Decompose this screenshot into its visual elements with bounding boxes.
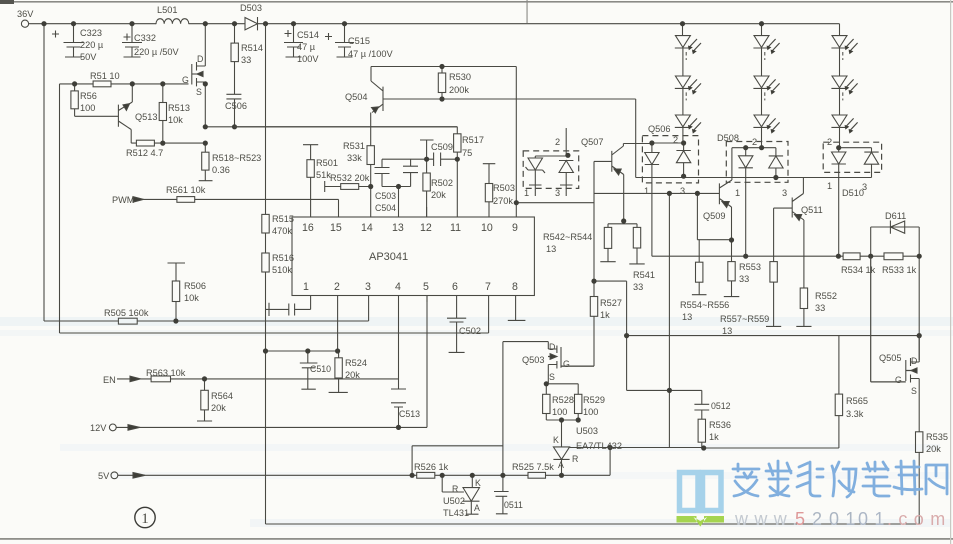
capacitor C510	[300, 351, 318, 389]
page frame right	[950, 0, 951, 544]
svg-text:470k: 470k	[272, 226, 292, 236]
svg-text:36V: 36V	[17, 9, 34, 19]
svg-text:5: 5	[423, 281, 429, 293]
LED string1 diode 1	[675, 24, 691, 76]
inductor L501	[156, 19, 189, 24]
svg-text:C514: C514	[297, 30, 319, 40]
svg-text:C510: C510	[310, 364, 331, 374]
svg-text:Q509: Q509	[703, 211, 725, 221]
resistor R527	[590, 297, 597, 317]
pin numbers U501 top row	[302, 222, 518, 234]
svg-text:R564: R564	[211, 391, 233, 401]
svg-text:C323: C323	[80, 28, 102, 38]
svg-text:33: 33	[739, 274, 749, 284]
wire R512 line	[131, 142, 205, 144]
capacitor C512	[694, 404, 709, 419]
svg-text:3: 3	[555, 188, 560, 198]
dual diode package D508 dashed box	[726, 142, 788, 183]
resistor R528	[545, 384, 547, 420]
transistor Q513	[118, 84, 132, 143]
transistor Q505 MOSFET	[906, 336, 919, 432]
zener diode left in box1	[526, 156, 546, 196]
svg-text:100: 100	[552, 407, 567, 417]
svg-text:Q513: Q513	[135, 112, 157, 122]
node 5V terminal	[111, 472, 118, 479]
svg-text:12V: 12V	[90, 423, 107, 433]
LED string2 diode 2	[753, 76, 769, 115]
wire pin2 vertical and line y351	[266, 296, 338, 352]
svg-text:4: 4	[395, 281, 401, 293]
svg-text:R529: R529	[583, 395, 605, 405]
svg-text:C503: C503	[375, 191, 396, 201]
svg-text:200k: 200k	[449, 85, 469, 95]
svg-text:1: 1	[827, 181, 832, 191]
node circled 1 page marker	[135, 507, 155, 527]
svg-text:R514: R514	[241, 43, 263, 53]
svg-text:AP3041: AP3041	[369, 251, 408, 263]
svg-text:2: 2	[812, 509, 828, 529]
wire 5V line	[118, 474, 610, 476]
wire Q506 pin1 vertical down	[668, 193, 670, 448]
svg-text:R513: R513	[168, 103, 190, 113]
transistor Q504	[371, 67, 383, 146]
wire bus B	[60, 296, 489, 334]
dual diode package Q506 dashed box	[642, 136, 698, 183]
resistor R56	[75, 84, 119, 116]
svg-text:R526 1k: R526 1k	[414, 462, 449, 472]
svg-text:1: 1	[141, 511, 149, 527]
svg-text:220 µ /50V: 220 µ /50V	[134, 47, 179, 57]
svg-text:11: 11	[450, 222, 461, 234]
svg-text:Q503: Q503	[522, 355, 544, 365]
wire PWM line	[133, 199, 339, 217]
svg-text:0511: 0511	[504, 500, 523, 510]
svg-text:2: 2	[827, 137, 832, 147]
faint scan tint bands	[0, 317, 953, 326]
svg-text:D510: D510	[842, 188, 864, 198]
svg-text:20k: 20k	[431, 190, 446, 200]
resistor R502	[426, 159, 428, 217]
svg-text:9: 9	[512, 222, 518, 234]
svg-text:Q504: Q504	[345, 92, 367, 102]
svg-text:50V: 50V	[80, 52, 97, 62]
svg-text:R553: R553	[739, 262, 761, 272]
svg-text:U502: U502	[443, 496, 465, 506]
svg-text:G: G	[563, 359, 570, 369]
wire pin9 grand vertical	[515, 67, 517, 218]
capacitor C323	[52, 24, 84, 57]
svg-text:3.3k: 3.3k	[846, 409, 864, 419]
resistor R563	[151, 376, 170, 382]
svg-text:L501: L501	[157, 5, 177, 15]
capacitor C332	[122, 24, 142, 57]
junction dots input rail area	[41, 21, 347, 146]
svg-text:www.: www.	[734, 509, 804, 529]
wire Q504 base line y99 to right	[383, 98, 636, 100]
svg-text:1: 1	[524, 188, 529, 198]
junction dots oscillator network	[368, 64, 519, 205]
svg-text:R542~R544: R542~R544	[543, 232, 592, 242]
svg-text:14: 14	[361, 222, 373, 234]
svg-text:R516: R516	[272, 253, 294, 263]
watermark logo book icon	[680, 473, 722, 511]
junction dots EN and lower-left buses	[173, 318, 401, 430]
IC U501 AP3041	[292, 217, 534, 296]
svg-text:R525 7.5k: R525 7.5k	[512, 462, 554, 472]
svg-text:R563 10k: R563 10k	[146, 368, 186, 378]
dual diode package box (left of Q507) dashed	[523, 151, 579, 189]
svg-text:33k: 33k	[347, 153, 362, 163]
resistor R503	[483, 164, 496, 217]
svg-text:20k: 20k	[211, 403, 226, 413]
diode left in Q506	[645, 143, 684, 256]
svg-text:A: A	[558, 460, 564, 470]
wire bottom rail	[266, 523, 920, 525]
scan crease line top middle	[527, 0, 528, 23]
svg-text:C506: C506	[225, 101, 247, 111]
resistor R530	[441, 67, 443, 100]
svg-text:EA7/TL432: EA7/TL432	[576, 441, 622, 451]
diode right in Q506	[676, 143, 690, 176]
page frame bottom	[0, 538, 953, 540]
resistor R517	[456, 152, 458, 217]
svg-text:R: R	[452, 484, 458, 494]
svg-text:100V: 100V	[297, 54, 319, 64]
svg-text:U503: U503	[576, 426, 598, 436]
svg-text:D: D	[197, 54, 203, 64]
svg-text:C504: C504	[375, 203, 396, 213]
svg-text:S: S	[196, 87, 202, 97]
svg-text:6: 6	[452, 281, 458, 293]
svg-text:G: G	[182, 75, 189, 85]
svg-text:R524: R524	[345, 358, 367, 368]
svg-text:R541: R541	[633, 270, 655, 280]
wire EN line	[117, 378, 399, 380]
wire Q503 drain vertical down to 5V line	[502, 342, 504, 492]
capacitor C515	[325, 24, 354, 57]
svg-text:.com: .com	[887, 509, 952, 529]
transistor Q501 power MOSFET	[192, 24, 206, 127]
svg-text:47 µ /100V: 47 µ /100V	[348, 49, 393, 59]
svg-text:R515: R515	[272, 214, 294, 224]
wire pin1 cap branch	[266, 296, 311, 317]
wire R503 tap to Q507 base line	[516, 202, 594, 204]
diode D611	[871, 221, 920, 257]
wire left vertical 2 to bus B	[59, 84, 61, 333]
resistor R501	[303, 145, 318, 217]
svg-text:20k: 20k	[926, 444, 941, 454]
svg-text:C332: C332	[134, 33, 156, 43]
svg-text:15: 15	[330, 222, 342, 234]
svg-text:S: S	[911, 386, 917, 396]
svg-text:D: D	[911, 356, 917, 366]
wire Q507 base line y193.4	[594, 192, 719, 194]
resistor R532	[325, 181, 371, 192]
svg-text:R506: R506	[184, 281, 206, 291]
svg-text:10k: 10k	[168, 115, 183, 125]
resistor R557~R559	[770, 262, 777, 283]
svg-text:1k: 1k	[709, 432, 719, 442]
svg-text:0.36: 0.36	[212, 165, 230, 175]
resistor R51	[93, 81, 111, 87]
diode right in D510	[864, 148, 878, 178]
svg-text:3: 3	[782, 188, 787, 198]
svg-text:R51 10: R51 10	[90, 71, 120, 81]
node 36V input terminal	[21, 20, 28, 27]
svg-text:R565: R565	[846, 396, 868, 406]
svg-text:R536: R536	[709, 420, 731, 430]
svg-text:Q506: Q506	[648, 124, 670, 134]
svg-text:220 µ: 220 µ	[80, 40, 104, 50]
svg-text:D: D	[549, 342, 555, 352]
svg-text:A: A	[474, 503, 480, 513]
LED string1 diode 2	[675, 76, 691, 115]
LED string3 diode 1	[831, 24, 847, 76]
wire source line down	[205, 126, 457, 128]
capacitor C511	[494, 492, 509, 514]
diode left in D508	[732, 148, 776, 257]
svg-text:33: 33	[815, 303, 825, 313]
LED string2 diode 1	[753, 24, 769, 76]
svg-text:100: 100	[80, 103, 95, 113]
resistor R525	[528, 472, 546, 478]
watermark chinese text	[733, 461, 947, 497]
resistor R518~R523	[199, 143, 213, 181]
wire bus A	[44, 296, 369, 322]
resistor R536	[698, 419, 705, 442]
transistor Q509	[719, 148, 732, 240]
svg-text:R531: R531	[343, 141, 365, 151]
svg-text:7: 7	[485, 281, 491, 293]
diode right in box1	[535, 128, 573, 196]
svg-text:2: 2	[555, 137, 560, 147]
svg-text:2: 2	[752, 137, 757, 147]
svg-text:R503: R503	[493, 183, 515, 193]
svg-text:33: 33	[241, 55, 251, 65]
capacitor C503	[375, 159, 399, 186]
svg-text:R502: R502	[431, 178, 453, 188]
svg-text:R: R	[572, 454, 578, 464]
wire Q511 base	[774, 208, 793, 262]
resistor R529	[546, 384, 578, 420]
dual diode package D510 dashed box	[823, 142, 881, 172]
svg-text:R527: R527	[600, 298, 622, 308]
svg-text:2: 2	[673, 135, 678, 145]
capacitor C514	[284, 24, 303, 57]
resistor R506	[168, 263, 186, 321]
svg-text:510k: 510k	[272, 265, 292, 275]
resistor R565	[835, 394, 842, 416]
svg-text:R557~R559: R557~R559	[720, 314, 769, 324]
svg-text:D508: D508	[717, 133, 739, 143]
svg-text:C513: C513	[399, 409, 420, 419]
svg-text:Q511: Q511	[801, 205, 823, 215]
resistor R534	[843, 253, 860, 260]
svg-text:R501: R501	[316, 158, 338, 168]
svg-text:3: 3	[680, 186, 685, 196]
svg-text:R512 4.7: R512 4.7	[126, 148, 163, 158]
wire pin4 vertical	[398, 296, 400, 334]
svg-text:270k: 270k	[493, 196, 513, 206]
transistor Q507	[612, 144, 652, 219]
wire C512 branch	[669, 390, 701, 404]
resistor R542~R544	[604, 227, 611, 248]
wire main left vertical (rail to bottom rail)	[265, 24, 267, 524]
svg-text:K: K	[475, 478, 481, 488]
capacitor C502	[447, 296, 466, 353]
svg-text:R561 10k: R561 10k	[166, 185, 206, 195]
svg-text:01: 01	[829, 509, 862, 529]
resistor R531	[370, 146, 372, 217]
svg-text:Q505: Q505	[879, 353, 901, 363]
svg-text:13: 13	[722, 326, 732, 336]
svg-text:0512: 0512	[711, 401, 731, 411]
svg-text:13: 13	[546, 244, 556, 254]
LED string3 diode 3	[831, 115, 847, 148]
junction dots diode packages and transistor nets	[565, 140, 922, 338]
LED string3 diode 2	[831, 76, 847, 115]
diode U503 EA7/TL432	[553, 420, 569, 475]
wire line y127	[235, 127, 458, 134]
capacitor C513 with EN tap	[391, 333, 406, 427]
value labels regulator area	[414, 342, 948, 518]
svg-text:R505 160k: R505 160k	[104, 308, 149, 318]
resistor R564	[197, 379, 212, 421]
svg-text:S: S	[549, 372, 555, 382]
svg-text:51k: 51k	[316, 170, 331, 180]
svg-text:R518~R523: R518~R523	[212, 153, 261, 163]
LED string1 diode 3	[675, 115, 691, 143]
svg-text:100: 100	[583, 407, 598, 417]
svg-text:47 µ: 47 µ	[297, 42, 316, 52]
wire pin12 stub	[426, 207, 428, 217]
wire R527 branch to Q505 drain net	[594, 281, 919, 390]
resistor R514	[234, 24, 236, 94]
resistor R554~R556	[696, 262, 703, 282]
wire R533 junction down to Q505	[918, 256, 920, 335]
watermark url text	[734, 509, 952, 529]
resistor R561	[177, 197, 195, 203]
page frame top	[0, 1, 953, 3]
wire Q507 base to vertical	[594, 161, 612, 296]
resistor R526	[417, 472, 435, 478]
svg-text:R533 1k: R533 1k	[882, 265, 917, 275]
svg-text:C515: C515	[348, 36, 370, 46]
wire R526 to U502 ref	[442, 475, 464, 492]
node 12V terminal	[109, 424, 116, 431]
svg-text:13: 13	[392, 222, 404, 234]
resistor R512	[136, 140, 154, 146]
svg-text:K: K	[553, 435, 559, 445]
diode right in D508	[769, 148, 783, 178]
wire y99 corner down to pin3 line	[635, 99, 637, 178]
svg-text:5: 5	[795, 509, 811, 529]
svg-text:C509: C509	[431, 142, 453, 152]
junction dots LED rail	[680, 21, 764, 26]
svg-text:R532 20k: R532 20k	[330, 173, 370, 183]
capacitor C506	[226, 94, 241, 127]
svg-text:D611: D611	[885, 211, 906, 221]
svg-text:1: 1	[735, 188, 740, 198]
resistor R535	[916, 432, 923, 453]
capacitor C509	[420, 140, 457, 166]
svg-text:R552: R552	[815, 291, 837, 301]
svg-text:Q507: Q507	[581, 137, 603, 147]
transistor Q511	[792, 178, 804, 289]
wire left vertical from rail to bus A	[43, 24, 45, 321]
svg-text:C502: C502	[459, 326, 481, 336]
svg-text:20k: 20k	[345, 370, 360, 380]
svg-text:10: 10	[481, 222, 493, 234]
wire Q509 emitter R554 branch	[697, 193, 731, 262]
wire R51 line	[60, 83, 189, 85]
wire 12V line	[116, 296, 427, 428]
LED string2 diode 3	[753, 115, 769, 148]
svg-text:PWM: PWM	[112, 195, 134, 205]
diode U502 TL431	[463, 475, 480, 514]
svg-text:75: 75	[462, 148, 472, 158]
svg-text:EN: EN	[103, 375, 116, 385]
svg-text:TL431: TL431	[443, 508, 469, 518]
svg-text:2: 2	[334, 281, 340, 293]
wire R565 vertical	[838, 336, 840, 448]
svg-text:D503: D503	[240, 3, 262, 13]
junction dots feedback network	[410, 333, 707, 478]
resistor R516	[262, 253, 269, 272]
svg-text:R535: R535	[926, 432, 948, 442]
value labels oscillator network	[316, 72, 515, 263]
diode left in D510	[832, 148, 872, 257]
transistor Q503 MOSFET	[503, 342, 561, 383]
resistor R541	[633, 227, 640, 248]
svg-text:33: 33	[633, 282, 643, 292]
svg-text:G: G	[895, 375, 902, 385]
wire top 36V rail	[29, 23, 840, 25]
svg-text:16: 16	[302, 222, 314, 234]
svg-text:R530: R530	[449, 72, 471, 82]
svg-text:5V: 5V	[98, 471, 110, 481]
svg-text:1: 1	[644, 186, 649, 196]
value label C502	[459, 326, 481, 336]
svg-text:12: 12	[420, 222, 432, 234]
wire Q506 pin1 down corner right	[652, 255, 843, 257]
svg-text:1: 1	[303, 281, 309, 293]
wire feedback R526 to drain vertical	[412, 446, 503, 476]
svg-text:R554~R556: R554~R556	[680, 300, 729, 310]
resistor R505	[118, 318, 137, 324]
svg-text:R528: R528	[552, 395, 574, 405]
value labels PWM and lower-left	[90, 185, 420, 481]
svg-text:8: 8	[512, 281, 518, 293]
wire Q506 pin3 line y177.5	[636, 176, 872, 177]
wire Q507 emitter to R541/R542	[608, 219, 637, 228]
value labels right half	[524, 124, 917, 336]
svg-text:R56: R56	[80, 91, 97, 101]
svg-text:13: 13	[682, 312, 692, 322]
resistor R552	[800, 288, 807, 309]
capacitor C504	[382, 159, 427, 217]
value labels input stage	[17, 3, 393, 175]
wire rail y66.5	[371, 66, 516, 68]
svg-text:10k: 10k	[184, 293, 199, 303]
svg-text:R517: R517	[462, 135, 484, 145]
pin numbers U501 bottom row	[303, 281, 518, 293]
resistor R513	[162, 84, 164, 143]
resistor R524	[329, 351, 348, 392]
resistor R515	[262, 214, 269, 233]
svg-text:01: 01	[858, 509, 891, 529]
svg-text:1k: 1k	[600, 310, 610, 320]
